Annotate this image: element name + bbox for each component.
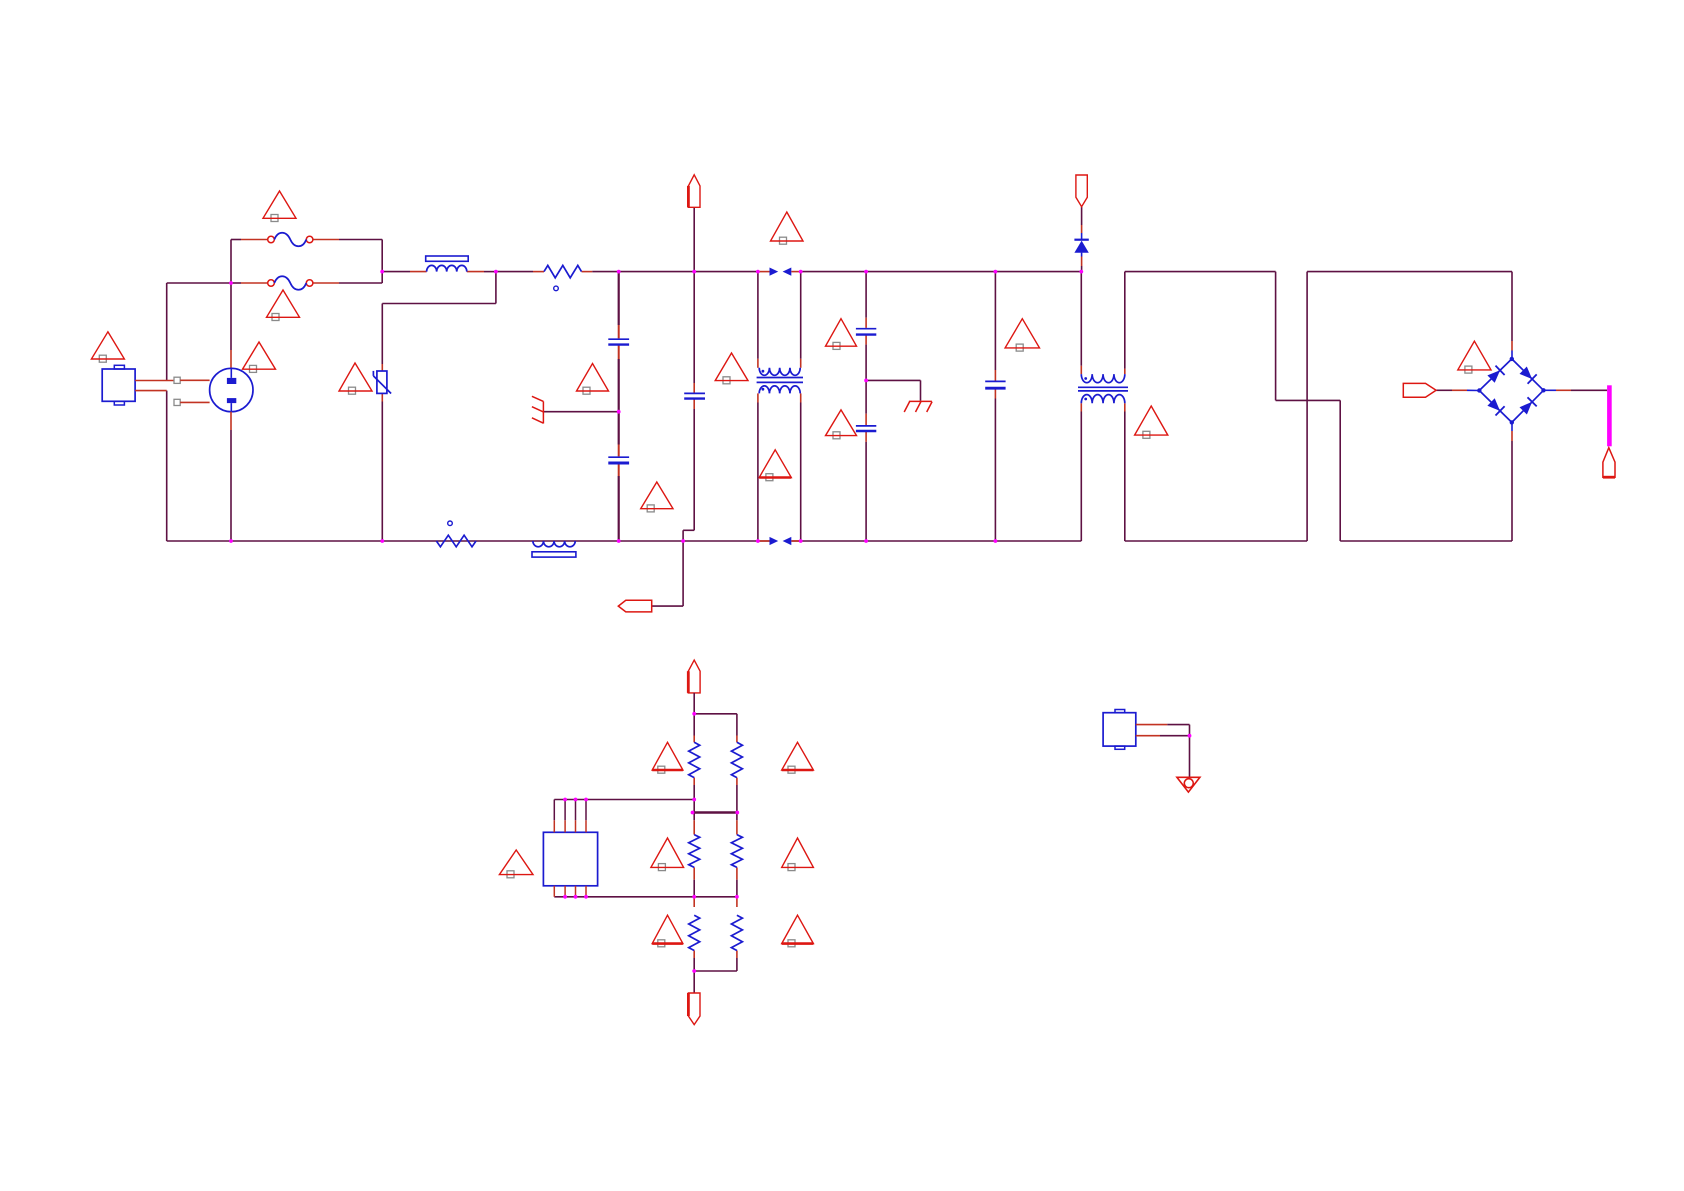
net flag B (down) above diode [1076,175,1087,207]
resistor R5 (row2 left) [689,835,700,868]
net flag C (up) top of divider [688,660,700,693]
triangle marker left of varistor [339,363,372,394]
net flag A (up) [688,175,700,208]
transformer T2 [1078,374,1128,403]
triangle marker mid flag branch [715,353,748,384]
varistor RV1 [373,371,391,394]
junction dot J2 [1188,734,1192,738]
wire: fuse F2 row [231,282,382,284]
bridge rectifier BR1 [1477,357,1546,425]
triangle marker row3 right (bold) [782,915,814,947]
fuse F1 [268,233,313,247]
triangle marker left of C3 [826,319,857,350]
resistor R7 (row3 left) [689,915,700,950]
triangle marker below F2 [267,290,300,321]
triangle marker row1 left (bold) [652,742,683,773]
connector CON1 (AC inlet) [102,365,174,405]
wire: bottom node to flag D [693,971,695,993]
junction dots main circuit [229,270,1083,543]
wire: bridge top vertical [1511,272,1513,359]
triangle marker row2 left [651,838,684,871]
wire: J2 to ground [1160,725,1190,778]
wire: filter cap branch C3/C4 [865,272,867,541]
inductor L2 with core bar (bottom rail) [532,541,576,557]
triangle marker left of bridge [1458,341,1491,373]
spark gap arrows top [770,268,792,276]
wire: spark gap rail stubs [759,272,801,541]
net flag F (up) below bus bar [1603,448,1615,478]
resistor R4 (row1 right) [731,742,742,777]
triangle marker row3 left (bold) [652,915,683,947]
net flag G (left, bottom) [618,600,651,612]
connector J2 (bottom right) [1103,710,1167,750]
triangle marker above F1 [263,191,296,222]
signal ground symbol [1177,777,1200,792]
wire: right column lower stubs [736,897,738,971]
bus bar (magenta) [1607,385,1612,446]
resistor R2 on bottom rail [436,521,476,547]
wire: flag C to top node [693,693,695,714]
wire: bridge bottom vertical [1511,422,1513,541]
plug P1 left NC pins with gray squares [174,377,210,405]
diode D1 [1074,240,1088,253]
plug P1 (receptacle circle) [210,350,253,430]
wire: AC input left loop horizontal [167,282,231,284]
wire: bottom rail segment 1 [167,540,770,542]
spark gap arrows bottom [770,537,792,545]
capacitor C4 [856,426,876,431]
wire: spark-gap right column [800,272,802,541]
capacitor C6 on flag branch [684,393,705,398]
wire: left vertical upper (to connector pin 1) [166,283,168,381]
wire: right column upper stubs [736,736,738,813]
triangle marker below T1 (bold base) [759,450,791,481]
triangle marker right of plug [243,342,276,372]
triangle marker left of C4 [826,410,857,439]
wire: IC bottom bus [554,896,737,898]
triangle marker row1 right (bold) [782,742,814,773]
wire: left column mid stubs [693,813,695,897]
wire: diode D1 branch from net flag [1081,207,1083,272]
wire: bottom rail segment 4 [1340,540,1512,542]
chassis ground right [904,401,932,412]
wire: bottom rail segment 2 [791,540,1081,542]
capacitor branch vertical (thick) [618,272,620,541]
resistor R8 (row3 right) [731,915,742,950]
wire: fuse loop vertical x=231 [230,240,232,351]
wire: node down-left to varistor branch [382,272,496,371]
capacitor C1 (upper X-cap) [608,339,629,344]
transformer T1 [757,368,803,394]
resistor R3 (row1 left) [689,742,700,777]
wire: loop 2 rectangle [1307,272,1512,541]
wire: varistor to bottom rail [381,393,383,541]
wire: chassis ground stub left [543,411,618,413]
wire: top rail middle [619,271,758,273]
resistor R6 (row2 right) [731,835,742,868]
wire: left column upper stubs [693,714,695,813]
wire: Y-cap branch from net flag to bottom [652,207,695,606]
triangle marker left of IC [499,850,533,878]
triangle marker right of T2 [1135,406,1168,438]
wire: bridge right lead to bus bar [1544,389,1608,391]
wire: choke L1 to node [467,271,496,273]
wire: transformer T2 secondary verticals and loop 1 [1125,272,1340,541]
triangle marker left of C1 branch [577,364,609,395]
wire: right column mid stubs [736,813,738,897]
IC U1 [543,800,597,897]
triangle marker left of C5 [1005,319,1039,351]
wire: left vertical lower (connector pin 2 to bottom rail) [166,391,168,541]
wire: spark-gap left column [757,272,759,541]
capacitor C3 [856,329,876,335]
wire: IC top bus [554,799,694,801]
wire: junction to choke L1 [382,271,426,273]
triangle marker above spark gap [771,212,804,244]
wire: divider bottom connect [694,970,737,972]
wire: top rail right of spark gap [801,271,1082,273]
wire: fuse loop right vertical [381,240,383,284]
capacitor C5 [985,381,1005,388]
wire: plug lower vertical [230,430,232,541]
triangle marker above CON1 [91,332,124,362]
net flag D (down) [688,993,700,1025]
wire: fuse F1 row [231,239,382,241]
wire: transformer T2 primary verticals [1080,272,1082,541]
wire: R1 to cap branch [582,271,619,273]
capacitor C2 (lower X-cap) [608,457,629,463]
fuse F2 [268,276,313,290]
inductor L1 with core bar [426,256,469,272]
wire: divider top connect [694,714,737,736]
wire: thick node link [693,811,738,814]
wire: left column lower stubs [693,897,695,971]
wire: bridge left lead from flag [1436,389,1479,391]
triangle marker below C2 [641,482,673,512]
wire: top rail node to resistor R1 [496,271,544,273]
net flag E (right) into bridge [1403,383,1436,397]
resistor R1 (top rail) [544,265,582,290]
triangle marker row2 right [782,838,814,871]
wire: chassis ground stub right [866,380,920,400]
chassis ground left [532,396,544,423]
junction dots divider [563,712,739,973]
wire: cap branch C5 [994,272,996,541]
wire: bottom rail segment 3 (secondary) [1125,540,1307,542]
